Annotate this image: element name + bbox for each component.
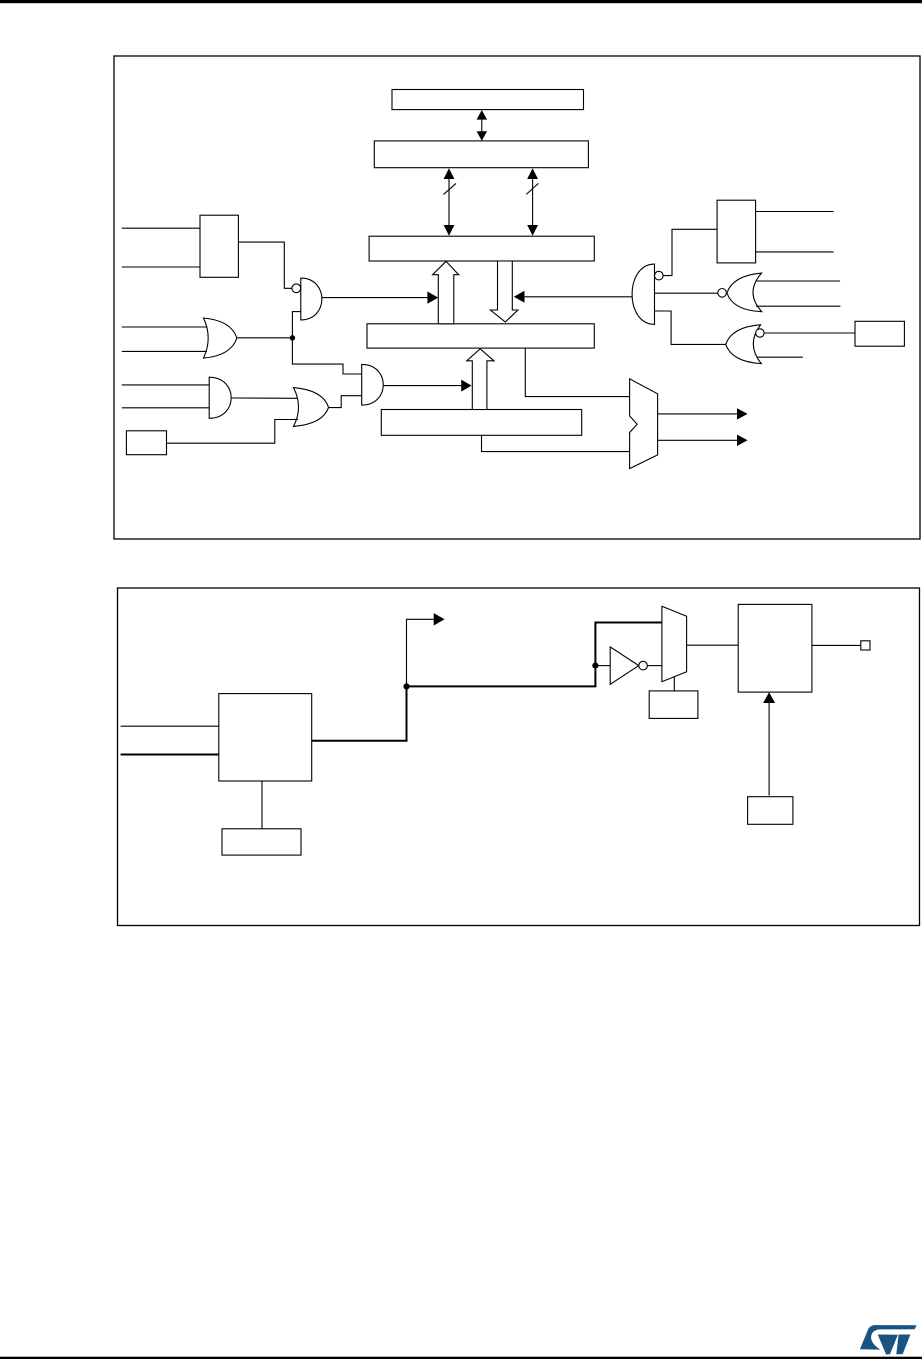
wire P input 2 [758,356,803,358]
and-gate N (left facing) [632,264,654,324]
select rect S [649,691,698,719]
wire M output 2 [756,251,834,253]
wire osc input 2 (thick) [121,754,219,756]
wire mux select stem [673,677,675,691]
wire I output to arrow [383,385,461,387]
wire M output 1 [756,211,834,213]
wire osc select stem [261,781,263,829]
wire H input 2 [122,350,207,352]
wire clock control arrow [768,703,770,796]
box interface (bus buffer) [374,141,588,168]
bus box lower [367,324,594,348]
bubble inverter output [639,661,648,670]
wire N middle input from gate O [655,292,718,294]
and-gate I [362,364,384,405]
wire register bottom to mux input 2 [482,435,630,451]
wire mux output 2 [658,439,737,441]
node junction dot [290,335,295,340]
wire node to clock output arrow [407,619,434,686]
mux trapezoid [630,379,658,469]
control rect T [748,797,793,825]
bubble O output [718,289,727,298]
register box bottom [381,410,581,436]
nor-gate O (left facing) [727,273,762,312]
wire J input 2 [122,407,209,409]
input rect L bottom-left [126,431,166,455]
wire J input 1 [122,384,209,386]
wire N output to bus arrow [525,296,633,298]
diagram 1 frame [114,56,920,539]
wire inverter to mux [647,665,662,667]
wire F output to gate G bubble [238,242,291,288]
bubble P inverted input [756,329,764,337]
wire node to inverter [595,665,610,667]
wire H output [237,337,293,339]
wire node to gate I [292,338,361,374]
wire osc output to mux (thick) [312,623,662,741]
node dot 1 [403,683,409,689]
wire bus lower to mux input 1 [525,348,629,397]
and-gate J [209,377,231,418]
and-gate G (with inverted input) [301,278,322,320]
box top (register) [392,90,584,110]
wire O input 2 [756,305,840,307]
diagram 2 frame [118,588,920,926]
wire J output [231,397,297,399]
wire mux 2 output [687,644,739,646]
wire mux output 1 [658,413,737,415]
wire P input 1 from rect Q [764,332,855,334]
node dot 2 [592,663,598,669]
page bottom rule [0,1357,922,1359]
wire G output to bus write arrow [322,297,428,299]
mux 2 trapezoid [662,606,687,681]
double-headed arrow top [477,110,487,141]
control rect Q right [855,321,904,346]
page top rule [0,0,922,3]
wire G lower input from node [292,312,300,338]
or-gate P (left facing, inverted top input) [726,325,762,364]
wire L to gate K [167,420,299,444]
wire K output to gate I [329,396,362,408]
or-gate K [294,388,329,427]
select rect U [222,829,301,855]
wire divider output [812,644,861,646]
bubble N inverted input [655,271,664,280]
wire O input 1 [756,280,841,282]
wire osc input 1 [121,725,219,727]
input rect F top-left [200,215,238,277]
ST logo [860,1325,917,1354]
wire N bubble to box M [663,229,717,275]
wire N lower input from gate P [655,311,726,344]
bus box upper [369,236,594,261]
control rect M top-right [717,200,756,263]
wire H input 1 [122,326,207,328]
hollow up arrow left [433,261,459,324]
divider box 2 [738,604,812,692]
bubble G input [292,284,301,293]
double-headed bus arrow right with slash [526,168,538,236]
wire F input 1 [122,227,200,229]
or-gate H [204,318,237,358]
hollow down arrow [490,261,518,322]
output pin square [861,641,870,650]
hollow up arrow lower [467,349,494,410]
double-headed bus arrow left with slash [444,168,457,236]
oscillator box [219,694,312,781]
wire F input 2 [122,266,200,268]
inverter [610,647,639,684]
